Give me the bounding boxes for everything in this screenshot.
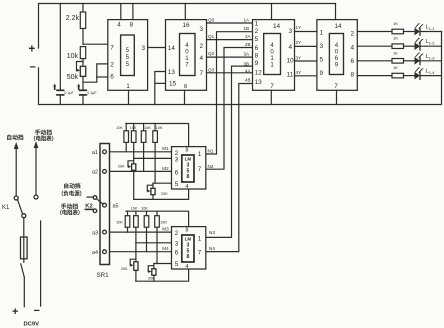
svg-text:1: 1 [320,30,324,37]
wire: op-amp B pin3 to RP4 [136,242,172,244]
svg-text:0.1μF: 0.1μF [64,91,74,95]
wire: 555 pin1 to ground [128,90,130,104]
svg-text:10K: 10K [141,207,148,211]
svg-text:8: 8 [185,148,188,154]
svg-text:（负电源）: （负电源） [58,189,85,197]
resistor R9 10K [141,124,151,172]
svg-text:2: 2 [110,61,114,68]
wire: 555 pin4 to +V [120,4,122,20]
svg-text:手动挡: 手动挡 [35,128,53,136]
svg-text:7: 7 [198,249,202,256]
LED L1-1 [404,23,442,35]
svg-text:−: − [30,62,36,74]
svg-text:N4: N4 [209,246,215,251]
node a4 [92,250,106,256]
svg-text:K1: K1 [2,205,10,211]
svg-text:LM: LM [185,157,192,162]
wire: battery - lead [40,221,42,306]
label K2 upper: automatic (negative supply) [58,182,85,197]
svg-text:2: 2 [351,31,355,38]
svg-text:4A: 4A [245,68,252,73]
svg-text:M4: M4 [162,246,169,251]
LED L1-2 [404,38,442,50]
svg-text:1K: 1K [393,65,398,70]
svg-text:7: 7 [334,83,338,90]
svg-text:9: 9 [320,70,324,77]
wire: 4011 pin4 to 4069 pin3 [295,45,317,47]
potentiometer RP3 20K [147,183,168,199]
wire: 4017 pins13,15 to ground [155,72,166,105]
svg-text:10: 10 [287,57,295,64]
wire: Q0 net 4017 pin3 to 4011 pin1 [207,18,253,24]
label K2 lower: manual (ohmmeter) [56,203,83,217]
svg-text:20K: 20K [161,192,168,196]
svg-text:20K: 20K [121,267,128,271]
svg-text:7: 7 [110,44,114,51]
svg-text:2A: 2A [245,34,252,39]
resistor R12 10K [131,207,139,243]
svg-text:8: 8 [184,84,187,90]
svg-text:6: 6 [175,169,179,176]
svg-text:N1: N1 [208,149,214,154]
potentiometer RP2 20K [118,158,136,199]
svg-text:K2: K2 [85,204,92,210]
svg-text:1Y: 1Y [296,25,302,30]
svg-text:10K: 10K [144,126,151,130]
svg-text:10K: 10K [160,221,167,225]
svg-text:+: + [12,306,18,318]
wire: timing node to C2 [82,76,84,89]
wire: battery + lead lower [23,277,25,307]
svg-text:6: 6 [255,45,259,52]
wire: 555 pin7 to divider [83,43,108,45]
wire: op-amp B V+ bus [126,211,189,226]
svg-text:4: 4 [185,264,188,270]
counter U2 4017 [166,20,207,91]
svg-text:0.1μF: 0.1μF [87,91,97,95]
wire: op-amp A pin4 ground line [134,189,189,199]
svg-text:6: 6 [110,74,114,81]
wire: 4017 pin16 to +V [184,4,186,20]
svg-text:13: 13 [255,79,263,86]
wire: op-amp A pin5 to RP3 [153,182,172,184]
svg-text:2.2k: 2.2k [66,15,80,22]
terminal strip SR1 [97,144,110,279]
svg-text:1: 1 [255,20,259,27]
op-amp U1 555 timer [108,20,148,91]
svg-text:4B: 4B [245,77,251,82]
svg-text:4: 4 [117,22,121,29]
LED L1-4 [404,67,442,79]
svg-text:LM: LM [185,237,192,242]
svg-text:2B: 2B [245,42,251,47]
switch K1 [2,199,26,217]
svg-text:6: 6 [351,58,355,65]
svg-text:a5: a5 [113,204,119,210]
svg-text:M3: M3 [162,227,169,232]
svg-text:9: 9 [335,61,339,68]
svg-text:M1: M1 [162,146,169,151]
wire: Q2 net 4017 pin4 to 4011 pin8 [207,51,253,57]
svg-text:14: 14 [168,45,176,52]
resistor R11 10K [116,211,130,232]
svg-text:3Y: 3Y [296,55,302,60]
svg-text:a3: a3 [92,230,98,236]
op-amp U5 LM358 A [172,147,214,190]
svg-text:5: 5 [320,56,324,63]
svg-text:10k: 10k [67,53,79,60]
node + supply terminal [29,44,36,56]
svg-text:L1-4: L1-4 [426,69,436,76]
svg-text:N3: N3 [209,230,215,235]
svg-text:15: 15 [169,81,177,88]
wire: Q1 net 4017 pin2 to 4011 pin5 [207,34,253,40]
wire: op-amp B pin4 ground line [136,269,189,281]
resistor R8 10K [130,124,137,159]
fuse F1 [21,237,28,259]
svg-text:3: 3 [320,43,324,50]
svg-text:L1-2: L1-2 [426,39,436,46]
battery BT1 DC9V [12,305,40,327]
svg-text:20K: 20K [148,276,155,280]
wire: a3 to op-amp B pin2 [106,227,172,233]
node - supply terminal [30,62,36,74]
resistor R10 10K [153,124,163,184]
svg-text:1: 1 [126,83,130,90]
wire: K1 throw 2 arrow up [34,141,39,199]
wire: 555 pin2 [83,64,108,82]
resistor R1 2.2k [66,4,86,45]
svg-text:10K: 10K [130,126,137,130]
svg-text:8: 8 [130,22,134,29]
wire: a4 to op-amp B pin6 [106,246,172,252]
svg-text:−: − [34,305,40,317]
svg-text:手动挡: 手动挡 [61,203,79,211]
wire: op-amp A V+ bus [126,124,189,147]
svg-text:3: 3 [200,26,204,33]
svg-text:8: 8 [187,254,190,260]
wire: 4011 pin10 to 4069 pin5 [295,60,317,62]
svg-text:1: 1 [198,235,202,242]
svg-text:2: 2 [175,230,179,237]
svg-text:50k: 50k [67,74,79,81]
svg-text:Q2: Q2 [208,51,215,56]
svg-text:8: 8 [187,174,190,180]
svg-text:N2: N2 [208,164,214,169]
svg-text:8: 8 [351,71,355,78]
svg-text:7: 7 [200,70,204,77]
svg-text:6: 6 [175,249,179,256]
svg-text:16: 16 [182,22,190,29]
svg-text:2: 2 [255,28,259,35]
wire: Q3 net 4017 pin7 to 4011 pin12 [207,67,253,73]
svg-text:7: 7 [198,166,202,173]
wire: 4017 pin8 to ground [184,90,186,104]
svg-text:DC9V: DC9V [24,321,40,327]
resistor R3 1K row1 [357,21,403,34]
wire: op-amp B pin5 to RP5 [154,263,172,265]
potentiometer RP1 50k [67,62,86,82]
wire: 555 pin3 to 4017 pin14 [148,47,166,49]
svg-text:4: 4 [289,44,293,51]
svg-text:4: 4 [200,55,204,62]
svg-text:8: 8 [255,53,259,60]
wire: net N4 4011 pin13 to op-amp2 output 7 [206,84,253,252]
capacitor C1 0.1uF [53,4,74,105]
svg-text:4Y: 4Y [296,70,302,75]
svg-text:a4: a4 [92,250,98,256]
wire: battery + lead upper [23,218,25,238]
wire: 4011 pin7 to ground [270,90,272,104]
switch K2 [85,196,103,213]
wire: a1 to op-amp A pin2 [106,146,172,152]
resistor R7 10K [116,124,128,152]
svg-text:5: 5 [175,181,179,188]
svg-text:5: 5 [175,261,179,268]
wire: net N1 4011 pin2 to op-amp output 1 [206,32,253,154]
wire: 4011 pin3 to 4069 pin1 [295,31,317,33]
node a5 [103,203,119,209]
node a1 [92,150,106,156]
wire: 4069 pin14 to +V [335,4,337,20]
svg-text:13: 13 [168,69,176,76]
wire: 555 pin8 to +V [132,4,134,20]
svg-text:Q1: Q1 [208,34,215,39]
svg-text:12: 12 [255,70,263,77]
wire: a2 to op-amp A pin6 [106,166,172,172]
resistor R6 1K row4 [357,65,403,78]
svg-text:1B: 1B [244,26,250,31]
capacitor C2 0.1uF [77,84,97,105]
potentiometer RP4 20K [121,243,138,281]
resistor R2 10k [67,47,86,67]
svg-text:L1-1: L1-1 [426,25,436,32]
node a3 [92,230,106,236]
resistor R14 10K [155,211,168,263]
svg-text:3A: 3A [244,52,251,57]
resistor R5 1K row3 [357,50,403,63]
resistor R13 10K [141,207,149,252]
wire: 4011 pin11 to 4069 pin9 [295,75,317,77]
svg-text:2: 2 [200,43,204,50]
svg-text:3: 3 [142,45,146,52]
svg-text:1: 1 [198,151,202,158]
svg-text:1K: 1K [393,50,398,55]
potentiometer RP5 20K [148,264,156,282]
svg-text:M2: M2 [162,166,169,171]
switch: power on-off blade [21,259,25,277]
svg-text:11: 11 [287,72,294,79]
label: manual (ohmmeter) right arrow [30,128,57,142]
svg-text:3: 3 [175,240,179,247]
svg-text:a1: a1 [92,150,98,156]
svg-text:1K: 1K [393,36,398,41]
wire: net N2 4011 pin6 to op-amp output 7 [206,48,253,170]
svg-text:8: 8 [185,227,188,233]
svg-text:10K: 10K [116,221,123,225]
LED L1-3 [404,52,442,64]
svg-text:（电阻表）: （电阻表） [56,209,83,217]
svg-text:10K: 10K [131,207,138,211]
svg-text:7: 7 [270,83,274,90]
svg-text:20K: 20K [118,165,125,169]
svg-text:3: 3 [289,28,293,35]
svg-text:SR1: SR1 [97,272,110,279]
svg-text:Q3: Q3 [208,67,215,72]
inverter U4 4069 [317,20,357,91]
svg-text:Q0: Q0 [208,18,215,23]
wire: op-amp A pin3 to RP2 [134,157,172,159]
svg-text:3B: 3B [244,61,250,66]
svg-text:10K: 10K [116,126,123,130]
svg-text:4: 4 [185,184,188,190]
op-amp U6 LM358 B [172,227,216,270]
svg-text:（电阻表）: （电阻表） [30,135,57,143]
svg-text:L1-3: L1-3 [426,54,436,61]
nand gate U3 4011 [244,18,302,91]
svg-text:自动挡: 自动挡 [6,133,24,141]
svg-text:4: 4 [351,44,355,51]
svg-text:9: 9 [255,60,259,67]
svg-text:自动挡: 自动挡 [63,182,81,190]
svg-text:a2: a2 [92,169,98,175]
wire: +V top rail [39,4,336,49]
svg-text:14: 14 [273,23,281,30]
svg-text:10K: 10K [156,126,163,130]
wire: 555 pin6 [97,76,108,78]
svg-text:1K: 1K [393,21,398,26]
svg-text:5: 5 [255,36,259,43]
resistor R4 1K row2 [357,36,403,49]
svg-text:1A: 1A [244,18,251,23]
wire: 4011 pin14 to +V [271,4,273,20]
svg-text:3: 3 [175,156,179,163]
node a2 [92,169,106,175]
wire: net N3 4011 pin9 to op-amp2 output 1 [206,66,253,237]
wire: 4069 pin7 to ground [336,90,338,104]
svg-text:14: 14 [334,23,342,30]
wire: K1 throw 1 arrow up [14,142,19,200]
wire: ground bottom rail [39,32,442,105]
svg-text:+: + [29,44,36,56]
svg-text:2Y: 2Y [296,40,302,45]
